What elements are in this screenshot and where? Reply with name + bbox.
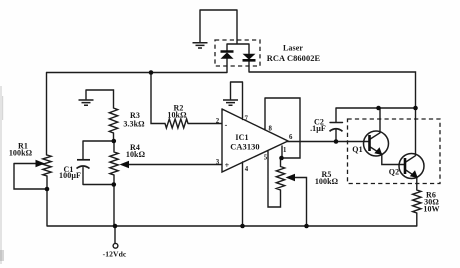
svg-text:-: - <box>225 121 228 130</box>
svg-text:100kΩ: 100kΩ <box>315 177 339 186</box>
svg-text:10kΩ: 10kΩ <box>167 111 187 120</box>
svg-text:4: 4 <box>245 166 249 173</box>
svg-text:10W: 10W <box>423 205 439 214</box>
svg-text:IC1: IC1 <box>235 133 248 142</box>
svg-text:7: 7 <box>244 116 248 123</box>
svg-text:10kΩ: 10kΩ <box>126 150 146 159</box>
svg-text:5: 5 <box>264 155 268 162</box>
svg-text:+: + <box>225 161 230 170</box>
svg-text:-12Vdc: -12Vdc <box>103 250 127 259</box>
svg-text:1: 1 <box>283 147 287 154</box>
svg-text:3.3kΩ: 3.3kΩ <box>123 120 145 129</box>
svg-text:RCA C86002E: RCA C86002E <box>267 54 321 63</box>
svg-text:100kΩ: 100kΩ <box>9 149 33 158</box>
svg-text:100μF: 100μF <box>59 171 81 180</box>
svg-text:Q2: Q2 <box>389 168 399 177</box>
svg-text:CA3130: CA3130 <box>230 143 259 152</box>
svg-text:3: 3 <box>216 159 220 166</box>
svg-text:Q1: Q1 <box>352 145 362 154</box>
svg-text:Laser: Laser <box>283 44 303 53</box>
svg-text:.1μF: .1μF <box>310 124 326 133</box>
svg-text:2: 2 <box>216 118 220 125</box>
svg-text:8: 8 <box>268 126 272 133</box>
svg-text:6: 6 <box>289 134 293 141</box>
